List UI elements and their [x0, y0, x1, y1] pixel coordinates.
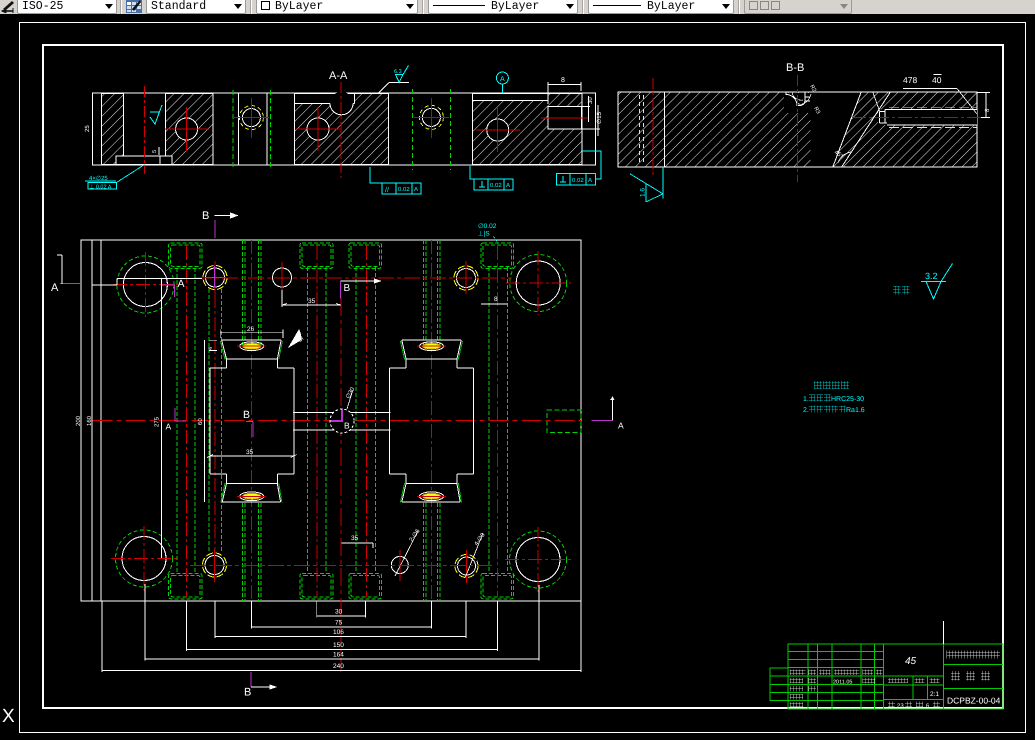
svg-text:4×∅25: 4×∅25	[89, 175, 108, 182]
right column horizontals	[943, 664, 1003, 688]
svg-text:40: 40	[932, 75, 942, 85]
hole C1	[165, 107, 209, 151]
svg-text:4: 4	[208, 347, 214, 350]
svg-text:HRC25-30: HRC25-30	[831, 396, 864, 403]
guide hole top-left	[113, 252, 178, 317]
hole C4 counterbore	[414, 98, 449, 138]
FCF perp 0.02 A right	[557, 151, 602, 185]
plain hole top	[273, 262, 292, 293]
left attachment tab	[770, 668, 788, 701]
row8	[790, 702, 804, 708]
qiyu text	[893, 286, 910, 295]
svg-text:B: B	[202, 210, 209, 222]
svg-text://: //	[385, 186, 389, 194]
dim 164	[145, 658, 539, 660]
cyan FCF top right of plan	[494, 237, 498, 243]
vertical dim d15	[597, 105, 599, 136]
counterbore top-left	[203, 261, 227, 294]
guide hole top-right	[506, 251, 571, 315]
svg-text:275: 275	[154, 416, 161, 427]
right pocket bottom gate ellipse	[417, 492, 446, 501]
section B cut line red	[340, 298, 342, 672]
datum circle symbol	[496, 72, 508, 93]
svg-text:106: 106	[333, 629, 344, 636]
svg-text:2.: 2.	[803, 407, 809, 414]
dim 35 top	[282, 290, 341, 307]
column 7 lines	[489, 246, 508, 597]
connector channel lines	[293, 412, 391, 414]
pocket P1 top	[169, 243, 202, 268]
dim 75	[252, 626, 432, 628]
dim 35 bottom mid	[342, 543, 374, 548]
pedestal bottom-left	[116, 156, 172, 165]
svg-text:30: 30	[335, 609, 343, 616]
green dashed x270	[270, 90, 272, 170]
svg-text:DCPBZ-00-04: DCPBZ-00-04	[947, 696, 1001, 706]
slot at right	[878, 110, 977, 126]
svg-text:150: 150	[333, 642, 344, 649]
horizontal red centerline top row	[196, 277, 512, 279]
svg-text:23: 23	[897, 703, 904, 710]
right pocket green slant marks	[400, 341, 462, 503]
hatch segment 2	[166, 94, 213, 165]
svg-text:B: B	[244, 687, 251, 699]
svg-text:1.: 1.	[803, 396, 809, 403]
red centerline of right slot	[541, 117, 588, 119]
dim 30	[317, 615, 366, 617]
dim 150	[187, 649, 498, 651]
long red centerline x144	[144, 86, 146, 174]
left pocket bottom gate ellipse	[237, 492, 266, 501]
svg-text:3.2: 3.2	[925, 271, 938, 281]
svg-text:5: 5	[152, 150, 158, 153]
slot red centerline	[852, 117, 984, 119]
svg-text:25: 25	[84, 125, 91, 132]
headers mid	[888, 678, 940, 683]
left grid horizontals	[788, 652, 944, 701]
hatch segment 1	[102, 94, 124, 165]
divider line x267	[266, 93, 268, 165]
svg-text:8: 8	[561, 77, 565, 84]
right pocket top gate ellipse	[417, 342, 446, 351]
svg-text:1.6: 1.6	[640, 188, 647, 197]
yellow dashed verticals left	[639, 95, 641, 164]
right core pocket	[390, 340, 474, 502]
small arc bottom of diagonal	[838, 152, 851, 163]
surface finish 1.6 below B-B	[630, 167, 663, 202]
guide hole bottom-right	[505, 527, 571, 592]
row4 labels	[790, 670, 883, 676]
horizontal red centerline middle	[93, 420, 582, 422]
row5 design/date	[790, 678, 876, 684]
hatch segment 3	[294, 94, 388, 165]
combo color ByLayer	[256, 0, 418, 14]
svg-text:0.02: 0.02	[490, 182, 502, 189]
pocket P1 bottom	[169, 574, 202, 599]
combo Standard	[146, 0, 246, 14]
svg-text:⊥|S: ⊥|S	[478, 231, 490, 238]
svg-text:A: A	[618, 421, 624, 431]
counterbore bottom-left	[203, 549, 227, 582]
pocket P3 top	[349, 243, 382, 268]
green dashed x450	[449, 89, 451, 170]
svg-text:75: 75	[335, 620, 343, 627]
svg-text:0.02: 0.02	[398, 186, 410, 193]
svg-text:A: A	[166, 422, 172, 432]
svg-text:A-A: A-A	[329, 70, 348, 82]
bottom sheet row	[888, 702, 940, 708]
svg-text:45: 45	[905, 656, 917, 667]
section B jog mid	[340, 282, 342, 299]
pocket P2 top	[300, 243, 333, 268]
hole C3	[296, 107, 340, 151]
section A marker left mid	[160, 278, 162, 558]
horizontal red centerline bottom row	[190, 565, 492, 567]
svg-text:164: 164	[333, 652, 344, 659]
pocket P4 bottom	[481, 574, 514, 599]
plain hole bottom mid	[391, 531, 418, 581]
svg-text:2011.05: 2011.05	[833, 680, 852, 686]
svg-text:B: B	[344, 421, 350, 431]
svg-text:Ra1.6: Ra1.6	[846, 407, 865, 414]
svg-text:A: A	[588, 177, 592, 184]
row7	[790, 694, 804, 700]
svg-text:200: 200	[75, 415, 82, 426]
left white dim line x92	[91, 240, 93, 601]
svg-text:A: A	[414, 186, 418, 193]
svg-text:2:1: 2:1	[930, 691, 939, 698]
column 6 gate runner lines	[424, 240, 441, 601]
institution name	[947, 651, 1001, 659]
svg-text:30: 30	[587, 97, 594, 104]
slot yellow dashed lines	[889, 106, 977, 108]
B-B hatch middle band	[833, 93, 890, 167]
svg-text:160: 160	[86, 415, 93, 426]
svg-text:A: A	[506, 182, 510, 189]
vertical dim 20 right of slot	[588, 96, 590, 122]
B-B hatch right part	[842, 93, 977, 167]
row6 check	[790, 686, 817, 692]
column 2 lines	[209, 289, 222, 553]
green dashed x233	[232, 90, 234, 170]
long red centerline x341	[340, 82, 342, 178]
top-left ext vertical	[61, 255, 63, 284]
svg-text:35: 35	[246, 449, 254, 456]
svg-text:240: 240	[333, 663, 344, 670]
side slot right edge	[547, 410, 581, 432]
svg-text:6.3: 6.3	[394, 69, 402, 75]
svg-text:0.02: 0.02	[572, 177, 584, 184]
section A-A bar outline	[93, 93, 596, 165]
white divider x664	[663, 92, 665, 167]
counterbore bottom-right	[455, 533, 483, 583]
svg-text:B: B	[344, 283, 351, 294]
dim 8 above right slot	[548, 82, 581, 104]
svg-text:X: X	[2, 706, 15, 727]
svg-text:26: 26	[247, 326, 255, 333]
left pocket green slant marks	[220, 341, 282, 503]
inner step line x100	[100, 240, 102, 601]
surface finish small cyan	[150, 105, 162, 124]
surface finish 6.3 leader	[378, 83, 409, 94]
FCF bottom-left two rows	[85, 165, 145, 190]
column 3 gate runner lines	[243, 240, 262, 601]
FCF perp 0.02 A mid	[470, 166, 513, 190]
pocket P2 bottom	[300, 574, 333, 599]
hole C5	[476, 108, 520, 152]
section A marker right	[612, 397, 614, 421]
left grid verticals	[808, 644, 884, 709]
dim style icon	[1, 0, 16, 13]
white vertical above block	[942, 621, 944, 644]
svg-text:478: 478	[903, 75, 917, 85]
svg-text:B-B: B-B	[786, 62, 804, 74]
magenta mark left pocket	[246, 422, 253, 438]
hole C2 counterbore	[234, 98, 269, 138]
svg-text:A: A	[178, 278, 185, 290]
svg-text:A: A	[500, 76, 505, 83]
title block outer	[788, 644, 1003, 709]
dim 35 inside left pocket	[207, 455, 297, 458]
toolbar	[0, 0, 1035, 14]
svg-text:⊥ 0.02 A: ⊥ 0.02 A	[90, 185, 112, 191]
red centerline x653	[652, 78, 654, 176]
middle section lines	[883, 644, 943, 709]
sprue notch lip in segment 3	[295, 94, 355, 103]
dim 106	[215, 636, 466, 638]
part name	[951, 671, 990, 681]
column 5 lines	[356, 246, 376, 597]
combo linetype ByLayer	[428, 0, 578, 14]
left pocket top gate ellipse	[237, 342, 266, 351]
B-B hatch left part	[619, 93, 811, 167]
svg-text:35: 35	[351, 535, 359, 542]
svg-text:∅15: ∅15	[596, 111, 603, 124]
left core pocket	[210, 340, 294, 502]
red section line x797	[797, 75, 799, 182]
surface 3.2 symbol	[921, 264, 953, 300]
divider line x238	[238, 93, 240, 165]
svg-text:A: A	[51, 282, 59, 294]
guide hole bottom-left	[111, 526, 177, 591]
svg-text:B: B	[243, 409, 250, 421]
diagonal lines	[833, 93, 861, 167]
notch at top of B-B	[784, 93, 811, 113]
left pocket height dim	[204, 340, 206, 502]
green dashed x412	[412, 89, 414, 170]
radius leader wedge	[288, 329, 302, 348]
dim 8 right column	[481, 303, 508, 305]
counterbore top-right	[454, 261, 478, 294]
FCF parallel 0.02 A	[370, 167, 421, 194]
notch leader marks	[792, 92, 811, 104]
combo plot style disabled	[744, 0, 852, 14]
section B-B bar outline	[618, 92, 977, 167]
table style icon	[126, 0, 142, 13]
tech requirements	[814, 381, 849, 389]
right notch slot	[548, 106, 582, 129]
dim 26 above left pocket	[220, 330, 283, 339]
svg-text:∅0.02: ∅0.02	[478, 223, 497, 230]
svg-text:60: 60	[197, 418, 204, 425]
center circle B	[330, 409, 354, 433]
plate outline	[81, 240, 581, 601]
combo ISO-25	[17, 0, 117, 14]
right vertical dim	[977, 93, 990, 118]
svg-text:8: 8	[494, 296, 498, 303]
pocket P3 bottom	[349, 574, 382, 599]
column 4 lines	[308, 246, 327, 597]
column 1 lines	[177, 246, 195, 597]
pocket P4 top	[481, 243, 514, 268]
svg-text:35: 35	[308, 298, 316, 305]
dim 240	[102, 670, 581, 672]
combo lineweight ByLayer	[588, 0, 734, 14]
bottom dim extension lines	[102, 584, 581, 672]
hatch segment 4	[473, 94, 582, 165]
